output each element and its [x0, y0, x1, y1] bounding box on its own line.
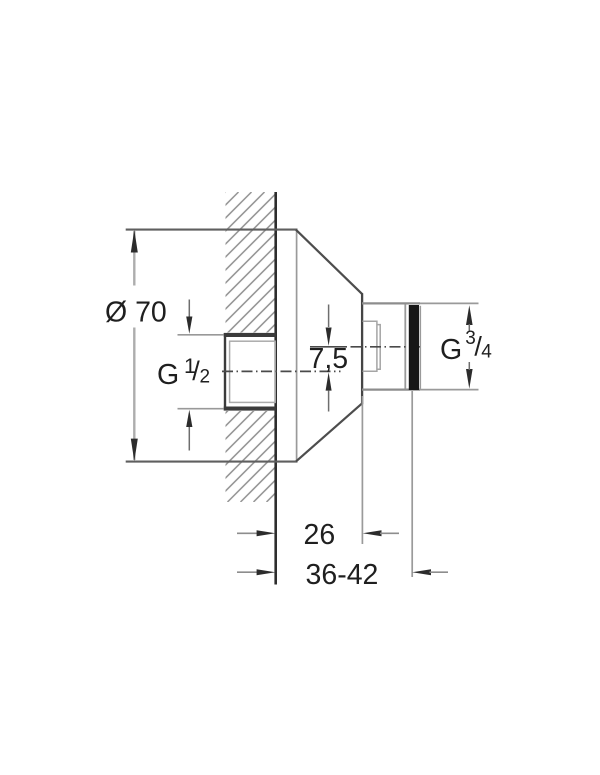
- G 3/4 thread (solid): [409, 305, 419, 390]
- centerline G 3/4 axis: [351, 346, 423, 348]
- svg-text:7,5: 7,5: [309, 343, 349, 375]
- dimension Ø70 line upper segment: [133, 231, 135, 286]
- cone top edge: [296, 230, 362, 294]
- svg-text:G: G: [157, 359, 179, 391]
- inner bore chamfer step: [377, 325, 380, 370]
- svg-text:36-42: 36-42: [306, 559, 379, 591]
- G 1/2 pipe white fill over hatch: [224, 333, 277, 412]
- dimension 36-42 left arrow: [237, 571, 259, 573]
- dimension 7,5 arrow line top: [328, 305, 330, 328]
- dimension Ø70 arrow up: [131, 230, 138, 253]
- dimension G 3/4 extension top: [420, 302, 479, 304]
- dimension Ø70 line lower segment: [133, 328, 135, 461]
- svg-text:4: 4: [481, 342, 492, 363]
- dimension G 1/2 arrow up: [188, 427, 190, 451]
- wall face line: [274, 192, 277, 585]
- flange face line: [296, 230, 298, 461]
- svg-text:Ø 70: Ø 70: [105, 296, 167, 328]
- dimension Ø70 arrow down: [131, 439, 138, 462]
- centerline G 1/2 axis: [222, 370, 341, 372]
- dimension G 3/4 arrow down: [466, 369, 473, 389]
- G 3/4 thread end line: [419, 306, 421, 389]
- dimension 7,5 arrow down: [326, 328, 332, 346]
- dimension G 3/4 arrow up: [466, 305, 473, 325]
- dimension 26 right arrow: [363, 530, 382, 536]
- G 3/4 pipe shoulder line: [404, 304, 406, 388]
- G 1/2 pipe top thread bar: [224, 333, 276, 337]
- dimension 26 left arrow: [237, 532, 259, 534]
- flange bottom edge / Ø70 extension bottom: [126, 461, 298, 463]
- svg-text:G: G: [440, 334, 462, 366]
- G 3/4 pipe bottom edge: [362, 388, 420, 390]
- dimension 7,5 arrow up: [326, 372, 332, 390]
- dimension 36-42 right arrow: [412, 569, 431, 575]
- cone right rim edge: [361, 293, 363, 404]
- cone bottom edge: [296, 403, 362, 461]
- wall hatched section: [0, 192, 577, 502]
- flange top edge / Ø70 extension top: [126, 229, 298, 231]
- G 1/2 pipe bottom thread bar: [224, 407, 276, 411]
- extension line from cone rim down: [361, 396, 363, 544]
- dimension G 3/4 extension bottom: [420, 389, 479, 391]
- dimension G 1/2 arrow down: [188, 300, 190, 319]
- G 3/4 pipe top edge: [362, 302, 420, 304]
- G 1/2 pipe inner rectangle: [230, 341, 276, 402]
- extension line from thread down: [411, 391, 413, 577]
- dimension 7,5 arrow line bottom: [328, 391, 330, 412]
- svg-text:2: 2: [200, 367, 211, 388]
- dimension G 1/2 extension top: [178, 334, 224, 336]
- dimension G 1/2 extension bottom: [178, 408, 224, 410]
- svg-text:26: 26: [304, 519, 336, 551]
- inner bore outline: [363, 321, 377, 371]
- G 1/2 pipe left end line: [224, 333, 226, 411]
- centerline G 3/4 axis solid start: [310, 346, 347, 348]
